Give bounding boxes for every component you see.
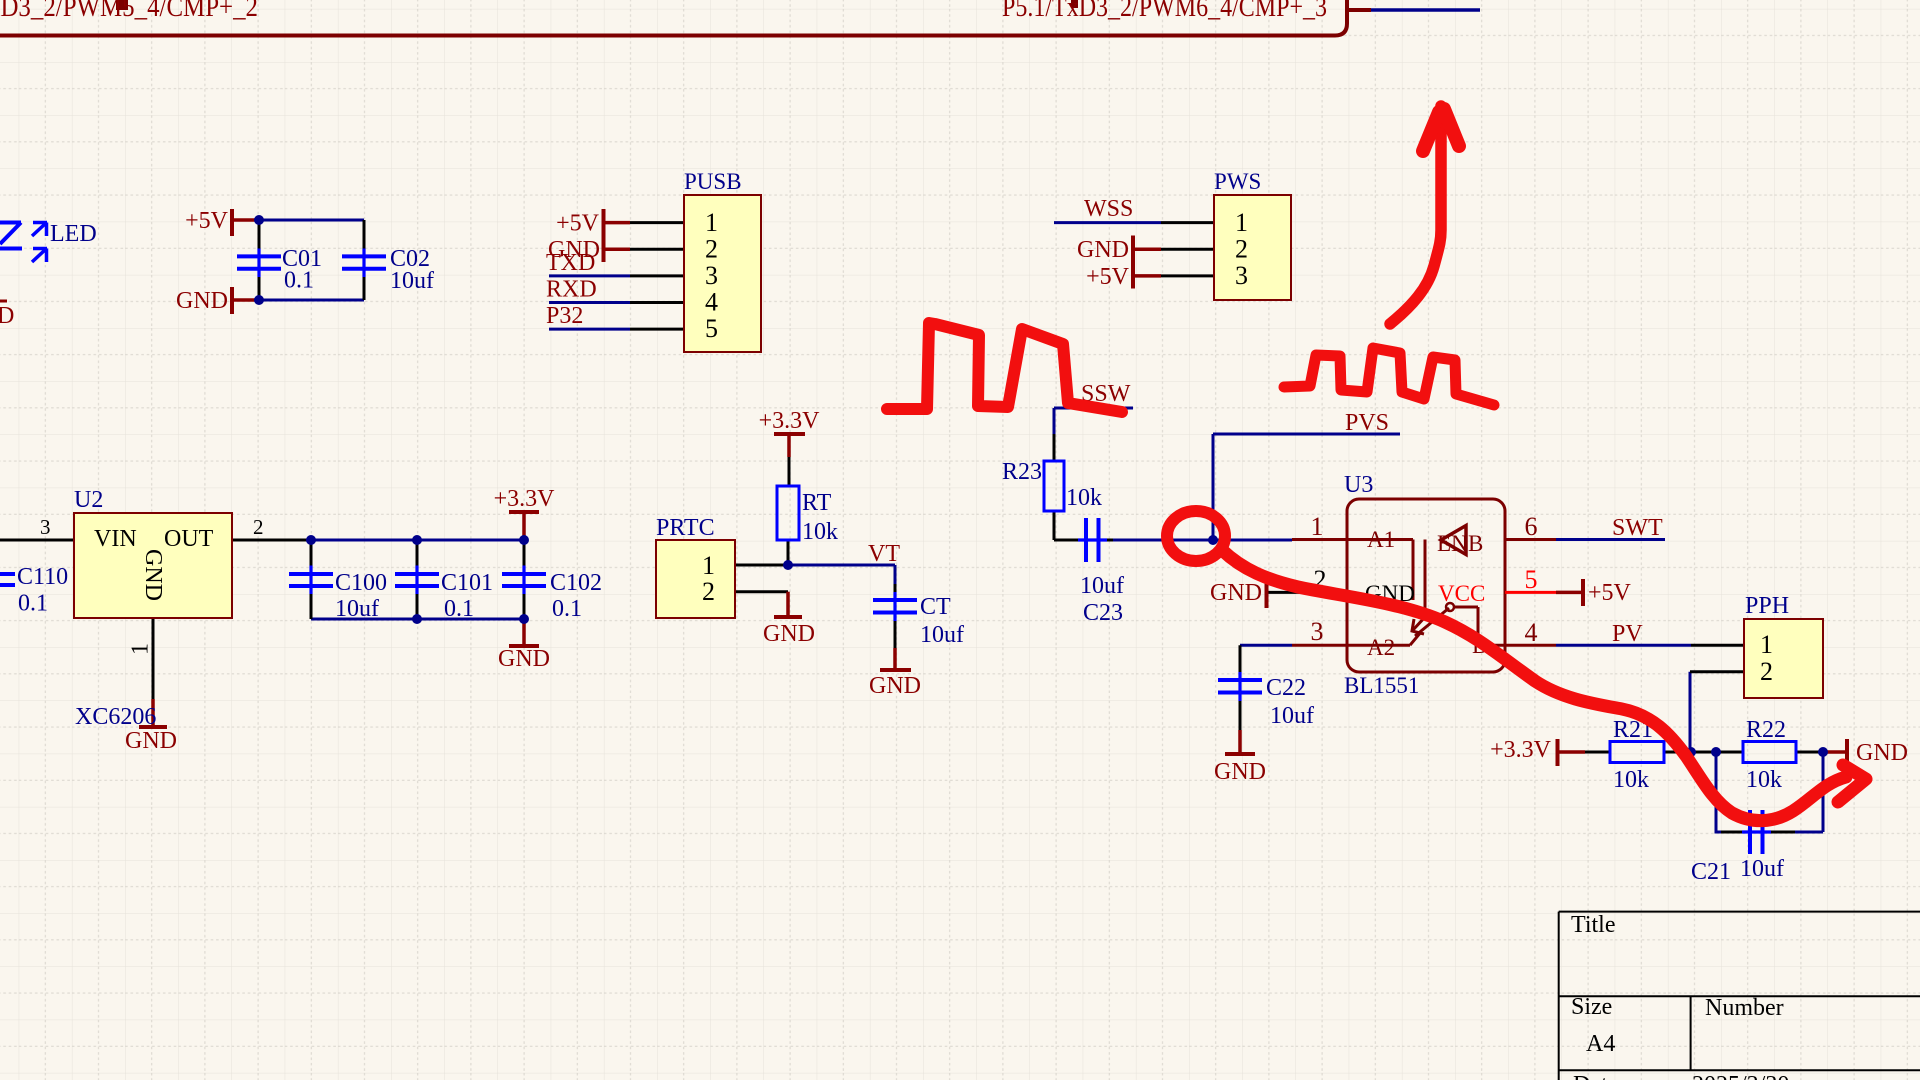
- svg-text:GND: GND: [1077, 237, 1129, 263]
- svg-text:U2: U2: [74, 487, 103, 513]
- svg-text:C23: C23: [1083, 600, 1123, 626]
- svg-text:E: E: [1437, 531, 1451, 556]
- svg-text:2: 2: [702, 577, 715, 606]
- svg-text:PUSB: PUSB: [684, 169, 742, 194]
- svg-text:GND: GND: [763, 621, 815, 647]
- svg-text:10k: 10k: [1613, 767, 1649, 793]
- svg-text:5: 5: [1525, 565, 1538, 594]
- svg-text:OUT: OUT: [164, 526, 214, 552]
- svg-text:+5V: +5V: [1086, 264, 1130, 290]
- svg-text:BL1551: BL1551: [1344, 673, 1419, 698]
- svg-text:RXD: RXD: [546, 277, 597, 303]
- svg-text:+3.3V: +3.3V: [759, 408, 821, 434]
- svg-text:VCC: VCC: [1438, 581, 1485, 606]
- svg-text:N: N: [1451, 531, 1468, 556]
- svg-text:A4: A4: [1586, 1031, 1615, 1057]
- svg-text:0.1: 0.1: [444, 596, 474, 622]
- svg-text:GND: GND: [1214, 759, 1266, 785]
- svg-text:GND: GND: [498, 646, 550, 672]
- svg-text:P5.1/TxD3_2/PWM6_4/CMP+_3: P5.1/TxD3_2/PWM6_4/CMP+_3: [1002, 0, 1327, 23]
- svg-text:1: 1: [705, 208, 718, 237]
- svg-text:3: 3: [1235, 261, 1248, 290]
- svg-text:PRTC: PRTC: [656, 515, 715, 541]
- svg-text:0.1: 0.1: [552, 596, 582, 622]
- svg-text:+3.3V: +3.3V: [1490, 737, 1552, 763]
- svg-text:R23: R23: [1002, 459, 1042, 485]
- svg-text:C101: C101: [441, 570, 493, 596]
- svg-text:PVS: PVS: [1345, 410, 1389, 436]
- svg-text:4: 4: [705, 288, 718, 317]
- svg-text:+3.3V: +3.3V: [494, 486, 556, 512]
- svg-text:WSS: WSS: [1084, 196, 1133, 222]
- svg-text:RT: RT: [802, 490, 832, 516]
- svg-text:Date: Date: [1573, 1072, 1618, 1080]
- svg-text:6: 6: [1525, 512, 1538, 541]
- svg-text:LED: LED: [50, 221, 97, 247]
- svg-text:PPH: PPH: [1745, 593, 1789, 619]
- svg-text:C110: C110: [17, 564, 68, 590]
- svg-text:1: 1: [1760, 630, 1773, 659]
- svg-text:10uf: 10uf: [1270, 703, 1314, 729]
- svg-text:Number: Number: [1705, 995, 1784, 1021]
- svg-text:A2: A2: [1367, 635, 1395, 660]
- svg-text:GND: GND: [176, 288, 228, 314]
- svg-text:2: 2: [1760, 657, 1773, 686]
- svg-text:SWT: SWT: [1612, 515, 1663, 541]
- svg-text:2025/3/30: 2025/3/30: [1692, 1072, 1789, 1080]
- svg-text:A1: A1: [1367, 527, 1395, 552]
- svg-text:VIN: VIN: [94, 526, 137, 552]
- svg-text:3: 3: [705, 261, 718, 290]
- svg-text:2: 2: [1235, 235, 1248, 264]
- svg-text:1: 1: [1311, 512, 1324, 541]
- svg-text:2: 2: [253, 515, 264, 539]
- svg-text:VT: VT: [868, 541, 900, 567]
- svg-text:10k: 10k: [1746, 767, 1782, 793]
- svg-text:C21: C21: [1691, 859, 1731, 885]
- svg-text:GND: GND: [1856, 740, 1908, 766]
- svg-text:+5V: +5V: [556, 211, 600, 237]
- svg-text:10k: 10k: [802, 519, 838, 545]
- svg-text:TXD: TXD: [546, 250, 595, 276]
- svg-text:U3: U3: [1344, 472, 1373, 498]
- svg-text:10k: 10k: [1066, 485, 1102, 511]
- svg-text:GND: GND: [125, 728, 177, 754]
- svg-text:3: 3: [40, 515, 51, 539]
- svg-text:0.1: 0.1: [284, 268, 314, 294]
- svg-text:D: D: [0, 303, 14, 329]
- svg-text:Size: Size: [1571, 994, 1612, 1020]
- svg-text:5: 5: [705, 314, 718, 343]
- svg-text:XC6206: XC6206: [75, 704, 156, 730]
- svg-text:GND: GND: [869, 673, 921, 699]
- svg-text:B: B: [1468, 531, 1483, 556]
- svg-text:10uf: 10uf: [390, 268, 434, 294]
- svg-text:10uf: 10uf: [920, 622, 964, 648]
- svg-text:P32: P32: [546, 303, 583, 329]
- svg-text:1: 1: [128, 643, 154, 655]
- svg-text:C100: C100: [335, 570, 387, 596]
- svg-text:3: 3: [1311, 617, 1324, 646]
- svg-text:C22: C22: [1266, 675, 1306, 701]
- svg-text:C102: C102: [550, 570, 602, 596]
- svg-text:GND: GND: [140, 549, 166, 601]
- svg-text:PWS: PWS: [1214, 169, 1261, 194]
- svg-text:10uf: 10uf: [335, 596, 379, 622]
- svg-text:GND: GND: [1210, 580, 1262, 606]
- svg-text:PV: PV: [1612, 621, 1643, 647]
- svg-text:xD3_2/PWM5_4/CMP+_2: xD3_2/PWM5_4/CMP+_2: [0, 0, 258, 23]
- svg-text:+5V: +5V: [1588, 580, 1632, 606]
- svg-text:Title: Title: [1571, 912, 1615, 938]
- svg-text:0.1: 0.1: [18, 591, 48, 617]
- svg-text:CT: CT: [920, 594, 951, 620]
- svg-text:2: 2: [705, 235, 718, 264]
- svg-text:+5V: +5V: [185, 208, 229, 234]
- svg-text:R22: R22: [1746, 717, 1786, 743]
- svg-text:10uf: 10uf: [1740, 856, 1784, 882]
- svg-text:1: 1: [1235, 208, 1248, 237]
- svg-text:4: 4: [1525, 618, 1538, 647]
- svg-text:10uf: 10uf: [1080, 573, 1124, 599]
- svg-text:1: 1: [702, 551, 715, 580]
